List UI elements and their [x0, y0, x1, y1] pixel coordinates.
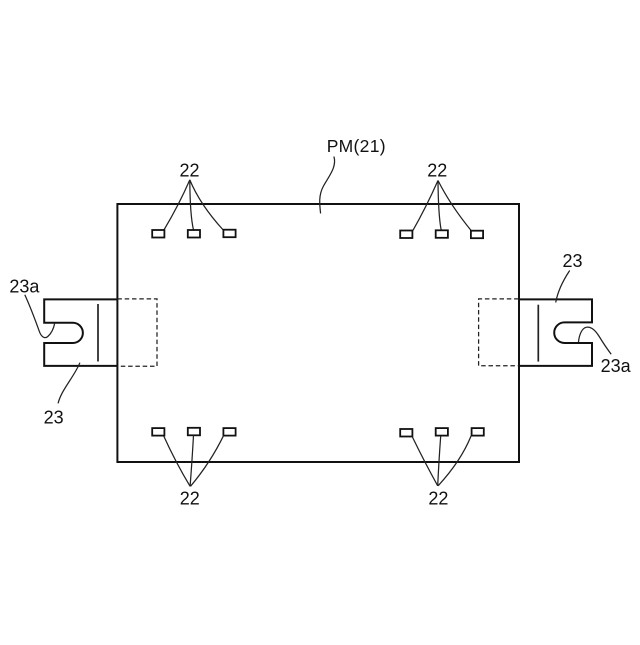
electrode 22 box (top-right 3): [471, 231, 483, 239]
leader fan bottom-left from electrodes: [164, 436, 191, 487]
electrode 22 box (top-right 1): [400, 231, 412, 239]
svg-text:22: 22: [427, 160, 447, 180]
electrode 22 box (bottom-right 1): [400, 429, 412, 437]
terminal 23 right outline with notch 23a: [519, 299, 592, 366]
hidden part of right terminal (dashed): [479, 299, 519, 366]
hidden part of left terminal (dashed): [117, 299, 157, 366]
electrode 22 box (top-left 2): [188, 230, 200, 238]
electrode 22 box (bottom-left 3): [223, 428, 235, 436]
svg-text:23: 23: [562, 251, 582, 271]
electrode 22 box (top-left 3): [223, 230, 235, 238]
fold line inside left terminal: [97, 304, 99, 362]
leader line 23 left: [58, 363, 80, 404]
electrode 22 box (bottom-left 2): [188, 428, 200, 436]
terminal 23 left outline with notch 23a: [44, 299, 117, 366]
svg-text:22: 22: [179, 160, 199, 180]
electrode 22 box (bottom-right 2): [436, 428, 448, 436]
electrode 22 box (bottom-right 3): [472, 428, 484, 436]
fold line inside right terminal: [537, 305, 539, 362]
electrode 22 box (bottom-left 1): [152, 428, 164, 436]
leader line 23 right: [556, 271, 570, 303]
leader fan top-right to electrodes: [413, 181, 438, 231]
electrode 22 box (top-right 2): [436, 230, 448, 238]
leader line 23a right: [579, 327, 612, 354]
svg-text:23: 23: [44, 408, 64, 428]
electrode 22 box (top-left 1): [152, 230, 164, 238]
leader line for PM(21): [320, 157, 335, 214]
svg-text:23a: 23a: [9, 277, 40, 297]
svg-text:23a: 23a: [601, 356, 632, 376]
svg-text:PM(21): PM(21): [327, 136, 386, 156]
svg-text:22: 22: [428, 489, 448, 509]
leader line 23a left: [25, 295, 55, 338]
package body PM(21) outline: [117, 204, 519, 462]
leader fan top-left to electrodes: [164, 180, 190, 230]
leader fan bottom-right from electrodes: [412, 436, 438, 485]
svg-text:22: 22: [180, 489, 200, 509]
